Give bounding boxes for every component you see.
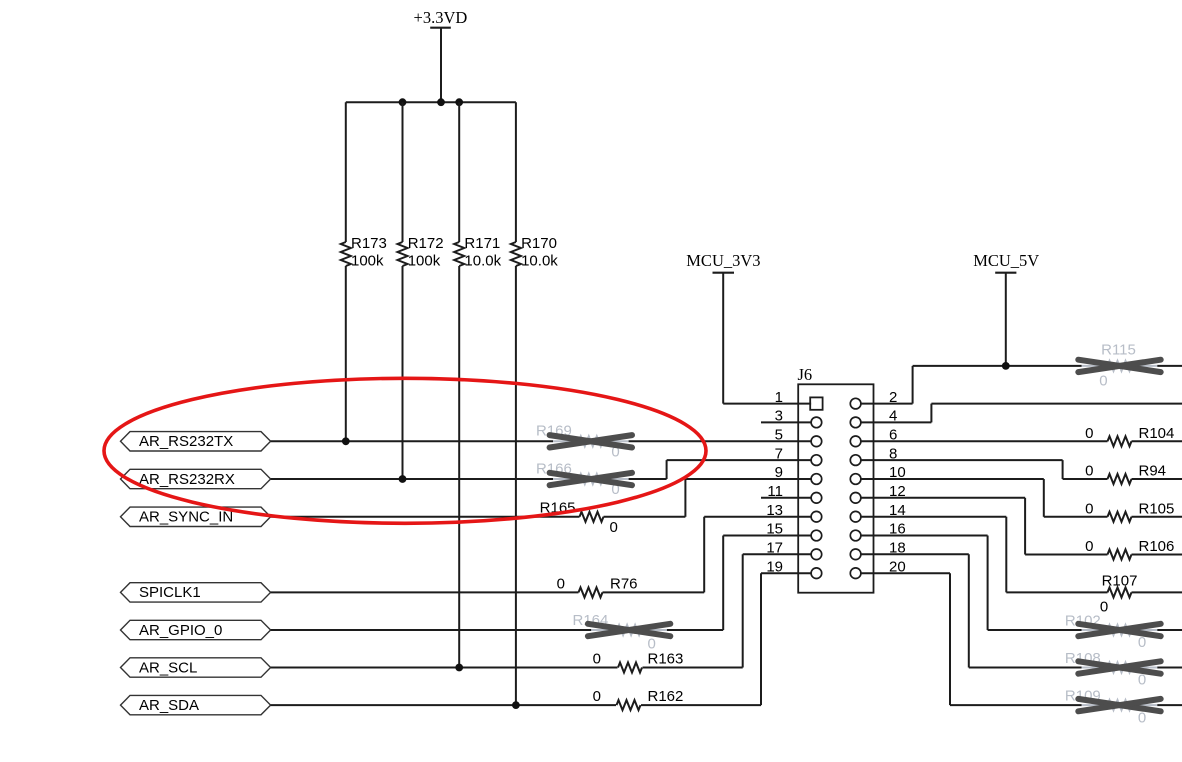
svg-text:100k: 100k (351, 252, 384, 269)
wire R169 to pin 5 (629, 440, 812, 442)
wire jog up to pin 19 (760, 573, 762, 705)
junction AR_RS232RX / R172 (399, 475, 407, 483)
wire jog up to pin 13 (703, 517, 705, 593)
wire +3.3VD rail (346, 101, 516, 103)
wire jog to R94 (1063, 478, 1108, 480)
svg-text:MCU_5V: MCU_5V (973, 251, 1039, 270)
svg-text:+3.3VD: +3.3VD (414, 8, 468, 27)
svg-text:0: 0 (593, 688, 601, 705)
wire R163 to jog (643, 667, 743, 669)
connector J6 body (798, 384, 873, 592)
svg-text:0: 0 (593, 651, 601, 668)
resistor R166 0 (unplaced, ghost) (536, 460, 629, 498)
resistor R165 0 (540, 499, 618, 536)
resistor R102 0 (unplaced, ghost) (1065, 612, 1157, 651)
svg-text:0: 0 (1099, 372, 1107, 389)
net flag AR_SYNC_IN (121, 507, 271, 526)
pin 20 pad (850, 568, 861, 579)
wire R94 to page edge (1132, 478, 1182, 480)
wire SPICLK1 to R76 (271, 591, 579, 593)
pin 19 pad (811, 568, 822, 579)
wire R109 to page edge (1157, 704, 1182, 706)
resistor R108 0 (unplaced, ghost) (1065, 650, 1157, 689)
pin 13 pad (811, 511, 822, 522)
wire R102 to page edge (1157, 629, 1182, 631)
svg-text:R104: R104 (1139, 425, 1175, 442)
svg-text:R163: R163 (648, 651, 684, 668)
wire from rail to R173 (345, 102, 347, 242)
no-place cross over R102 (1078, 624, 1160, 636)
svg-text:10.0k: 10.0k (521, 252, 558, 269)
wire MCU_3V3 to pin 1 (723, 403, 811, 405)
svg-text:AR_SCL: AR_SCL (139, 659, 197, 676)
svg-text:AR_GPIO_0: AR_GPIO_0 (139, 622, 222, 639)
resistor R107 0 (1100, 573, 1138, 616)
svg-text:R94: R94 (1139, 463, 1167, 480)
resistor R164 0 (unplaced, ghost) (573, 612, 667, 653)
wire jog to R105 (1044, 516, 1108, 518)
pin 11 pad (811, 493, 822, 504)
wire from R173 down to net (345, 266, 347, 441)
wire AR_SCL to R163 (271, 667, 618, 669)
wire MCU_5V rail to R115 (913, 365, 1082, 367)
svg-text:0: 0 (1085, 463, 1093, 480)
no-place cross over R115 (1078, 360, 1160, 372)
wire R164 to jog (667, 629, 723, 631)
svg-text:R115: R115 (1101, 341, 1136, 358)
annotation red ellipse (104, 378, 706, 523)
wire pin 18 (861, 553, 969, 555)
resistor R76 0 (557, 576, 638, 598)
no-place cross over R109 (1078, 699, 1160, 711)
wire R107 to page edge (1132, 591, 1182, 593)
no-place cross over R164 (588, 624, 670, 636)
pin 12 pad (850, 493, 861, 504)
pin 16 pad (850, 530, 861, 541)
svg-text:0: 0 (1085, 425, 1093, 442)
wire from R171 down to net (458, 266, 460, 668)
svg-text:R162: R162 (648, 688, 684, 705)
resistor R115 0 (unplaced, ghost) (1082, 341, 1158, 389)
junction on rail at R171 (455, 98, 463, 106)
wire pin 2 to MCU_5V rail (861, 403, 913, 405)
resistor R169 0 (unplaced, ghost) (536, 423, 629, 461)
pin 10 pad (850, 474, 861, 485)
junction AR_SDA / R170 (512, 701, 520, 709)
wire jog up to pin 17 (742, 554, 744, 667)
pin 14 pad (850, 511, 861, 522)
svg-text:J6: J6 (798, 365, 813, 384)
svg-text:AR_RS232RX: AR_RS232RX (139, 471, 235, 488)
svg-text:R76: R76 (610, 576, 638, 593)
wire jog to R106 (1025, 554, 1107, 556)
pin 17 pad (811, 549, 822, 560)
wire AR_RS232RX to R166 (271, 478, 553, 480)
resistor R163 0 (593, 651, 684, 673)
junction MCU_5V stem (1002, 362, 1010, 370)
junction on rail at power stem (437, 98, 445, 106)
pin 3 pad (811, 417, 822, 428)
svg-text:0: 0 (1085, 500, 1093, 517)
wire R104 to page edge (1132, 440, 1182, 442)
net flag SPICLK1 (121, 583, 271, 602)
pin 2 pad (850, 398, 861, 409)
wire R105 to page edge (1132, 516, 1182, 518)
wire pin 16 (861, 535, 988, 537)
svg-text:AR_SDA: AR_SDA (139, 697, 199, 714)
power symbol MCU_5V (973, 251, 1039, 366)
net flag AR_RS232RX (121, 469, 271, 488)
resistor R172 100k (398, 235, 444, 269)
pin 18 pad (850, 549, 861, 560)
pin 9 pad (811, 474, 822, 485)
wire pin 8 (861, 459, 1063, 461)
svg-text:MCU_3V3: MCU_3V3 (686, 251, 760, 270)
wire R165 to jog (604, 516, 686, 518)
svg-text:R106: R106 (1139, 538, 1175, 555)
svg-text:R170: R170 (521, 235, 557, 252)
wire AR_GPIO_0 to R164 (271, 629, 592, 631)
svg-text:R171: R171 (464, 235, 500, 252)
wire from R170 down to net (515, 266, 517, 705)
wire pin 4 to page edge (861, 421, 932, 423)
wire pin 14 (861, 516, 1006, 518)
wire pin 10 (861, 478, 1044, 480)
wire jog up to pin 15 (722, 536, 724, 631)
svg-text:R105: R105 (1139, 500, 1175, 517)
resistor R162 0 (593, 688, 684, 710)
pin 4 pad (850, 417, 861, 428)
wire jog to R104 (1107, 440, 1109, 442)
wire jog to R109 (950, 704, 1082, 706)
power symbol MCU_3V3 (686, 251, 760, 404)
wire jog to R107 (1006, 591, 1107, 593)
wire jog to R108 (969, 667, 1082, 669)
svg-text:0: 0 (1085, 538, 1093, 555)
junction AR_SCL / R171 (455, 664, 463, 672)
wire R162 to jog (641, 704, 761, 706)
no-place cross over R166 (550, 473, 632, 485)
svg-text:SPICLK1: SPICLK1 (139, 584, 201, 601)
pin 8 pad (850, 455, 861, 466)
wire AR_SDA to R162 (271, 704, 616, 706)
net flag AR_SDA (121, 695, 271, 714)
resistor R170 10.0k (511, 235, 558, 269)
wire jog up to pin 7 (666, 460, 668, 479)
wire R166 to jog (629, 478, 667, 480)
svg-text:R172: R172 (408, 235, 444, 252)
resistor R109 0 (unplaced, ghost) (1065, 688, 1157, 727)
pin 5 pad (811, 436, 822, 447)
wire stub pin 11 (761, 497, 811, 499)
wire R115 to page edge (1157, 365, 1182, 367)
wire AR_SYNC_IN to R165 (271, 516, 580, 518)
resistor R171 10.0k (454, 235, 501, 269)
svg-text:100k: 100k (408, 252, 441, 269)
svg-text:0: 0 (610, 519, 618, 536)
svg-text:AR_RS232TX: AR_RS232TX (139, 433, 233, 450)
pin 7 pad (811, 455, 822, 466)
wire from rail to R170 (515, 102, 517, 242)
resistor R105 0 (1085, 500, 1174, 522)
resistor R173 100k (341, 235, 387, 269)
svg-text:AR_SYNC_IN: AR_SYNC_IN (139, 509, 233, 526)
resistor R104 0 (1085, 425, 1174, 447)
wire AR_RS232TX to R169 (271, 440, 553, 442)
pin 6 pad (850, 436, 861, 447)
wire pin 6 (861, 440, 1108, 442)
no-place cross over R169 (550, 435, 632, 447)
wire R106 to page edge (1132, 554, 1182, 556)
junction on rail at R172 (399, 98, 407, 106)
svg-text:10.0k: 10.0k (464, 252, 501, 269)
net flag AR_SCL (121, 658, 271, 677)
svg-text:R107: R107 (1102, 573, 1138, 590)
net flag AR_GPIO_0 (121, 620, 271, 639)
wire from rail to R171 (458, 102, 460, 242)
resistor R106 0 (1085, 538, 1174, 560)
net flag AR_RS232TX (121, 432, 271, 451)
wire R108 to page edge (1157, 667, 1182, 669)
wire pin 12 (861, 497, 1025, 499)
wire stub pin 3 (761, 421, 811, 423)
svg-text:0: 0 (1100, 599, 1108, 616)
svg-text:R173: R173 (351, 235, 387, 252)
no-place cross over R108 (1078, 661, 1160, 673)
wire pin 20 (861, 572, 950, 574)
wire from R172 down to net (402, 266, 404, 479)
pin 1 square pad (810, 397, 822, 409)
junction AR_RS232TX / R173 (342, 437, 350, 445)
wire from rail to R172 (402, 102, 404, 242)
resistor R94 0 (1085, 463, 1166, 485)
wire jog to R102 (988, 629, 1082, 631)
wire jog up to pin 9 (684, 479, 686, 517)
power symbol +3.3VD (414, 8, 468, 102)
wire R76 to jog (603, 591, 705, 593)
pin 15 pad (811, 530, 822, 541)
svg-text:0: 0 (557, 576, 565, 593)
